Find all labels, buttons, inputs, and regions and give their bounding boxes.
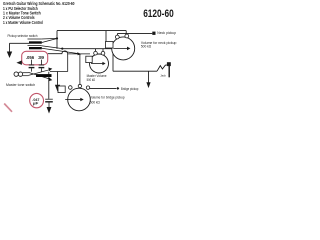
capacitor C2 symbol	[39, 60, 45, 72]
master tone switch crossing wipers	[28, 70, 49, 76]
svg-text:.056: .056	[26, 55, 35, 60]
node junction on bus	[61, 48, 63, 50]
wire diagonal row1 to junction	[41, 37, 57, 40]
wire from tone switch down to cap	[48, 72, 50, 99]
node neck pickup terminal square	[152, 32, 155, 35]
pickup selector switch contact bar 1	[29, 41, 42, 43]
pickup selector switch contact row 3	[28, 45, 42, 47]
wire bridge pickup lead	[90, 87, 117, 89]
master tone switch leads	[23, 72, 29, 74]
wire diagonal bar1 to master pot bus	[41, 46, 62, 49]
svg-text:6120-60: 6120-60	[143, 8, 174, 20]
stray red mark bottom left	[4, 104, 12, 112]
svg-text:Bridge pickup: Bridge pickup	[121, 87, 139, 91]
label bridge volume	[90, 95, 125, 104]
node bridge pickup diamond	[116, 87, 119, 90]
wire jack ground drop with arrow	[148, 71, 150, 83]
wire horizontal to jack	[113, 70, 157, 72]
title block text	[3, 1, 75, 25]
label master volume	[87, 74, 107, 82]
wire corner down to neck pot right terminal	[125, 31, 127, 35]
jack J1	[157, 62, 171, 77]
wire master pot terminal stubs	[95, 49, 97, 52]
wire diagonal row3 to junction	[42, 39, 57, 43]
wire tone box to master pot with hop	[48, 51, 90, 54]
svg-text:Volume for bridge pickup: Volume for bridge pickup	[90, 95, 125, 99]
wire bus y48 to master pot	[63, 48, 114, 50]
wire top bus to neck pot	[57, 30, 126, 32]
pickup selector switch contact row 1	[28, 38, 42, 40]
wire down-arrow to pickups (left)	[9, 43, 11, 52]
wire branch down to neck pot tab	[105, 31, 107, 42]
left arrow into cap box	[16, 60, 22, 65]
svg-text:39: 39	[38, 55, 45, 60]
svg-text:µF: µF	[33, 102, 39, 106]
wire neck pickup lead	[118, 32, 153, 34]
svg-text:Pickup selector switch: Pickup selector switch	[8, 34, 38, 38]
wire riser to tone switch	[67, 54, 69, 72]
potentiometer master volume 500k	[86, 51, 109, 73]
potentiometer neck volume 500k	[106, 34, 135, 60]
wire vertical x113 down to jack line	[112, 49, 114, 71]
svg-text:500 kΩ: 500 kΩ	[90, 100, 100, 104]
wire drop to bridge pot	[79, 54, 81, 85]
master tone switch terminals (two circles)	[14, 72, 18, 76]
label neck volume	[141, 41, 177, 49]
pickup selector switch contact bar 2	[29, 47, 42, 49]
svg-text:500 kΩ: 500 kΩ	[87, 78, 96, 82]
capacitor C3 value red circled	[30, 93, 44, 107]
master tone switch common bar	[36, 74, 52, 77]
potentiometer bridge volume 500k	[58, 84, 90, 110]
capacitor box (tone switch caps) red highlight	[22, 51, 48, 65]
svg-text:Neck pickup: Neck pickup	[157, 31, 176, 35]
svg-text:Master tone switch: Master tone switch	[6, 83, 35, 87]
wire left lead of selector switch	[10, 42, 30, 44]
svg-text:Jack: Jack	[160, 73, 166, 77]
svg-text:1 x Master Volume Control: 1 x Master Volume Control	[3, 20, 43, 25]
svg-text:500 kΩ: 500 kΩ	[141, 45, 152, 49]
wire vertical bus x57 down to ground arrow	[56, 31, 58, 49]
node junction dot	[56, 37, 58, 39]
capacitor C3 (to ground)	[45, 99, 53, 107]
capacitor C1 symbol	[29, 60, 35, 72]
wire diagonal bar2 with arrow	[42, 48, 79, 53]
